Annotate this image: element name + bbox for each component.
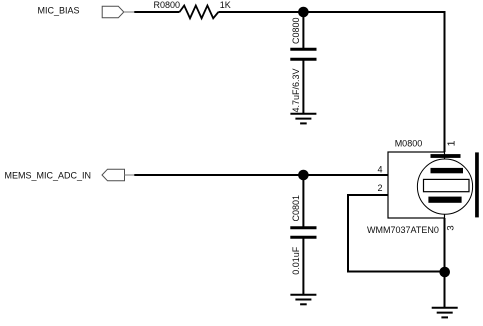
microphone symbol circle [417, 159, 472, 214]
ground below C0801 [290, 295, 316, 305]
microphone lower inner bar [428, 197, 461, 203]
pin 3 wire to ground [444, 218, 446, 308]
node junction wire2/C0801 [298, 170, 309, 181]
svg-text:0.01uF: 0.01uF [291, 246, 301, 275]
wire junction to C0800 [302, 12, 304, 48]
capacitor C0800 [290, 49, 316, 59]
microphone U M0800 body box [388, 152, 445, 218]
wire MEMS_MIC_ADC_IN to pin 4 [134, 174, 388, 176]
microphone top bar [431, 154, 461, 158]
svg-text:4.7uF/6.3V: 4.7uF/6.3V [291, 68, 301, 112]
svg-text:3: 3 [445, 225, 456, 230]
wire C0801 to ground [302, 237, 304, 295]
svg-text:1K: 1K [220, 0, 231, 10]
pin 2 wire route to ground net [348, 195, 445, 272]
wire C0800 to ground [302, 59, 304, 114]
ground below microphone [432, 308, 458, 318]
svg-text:MEMS_MIC_ADC_IN: MEMS_MIC_ADC_IN [5, 170, 92, 180]
svg-text:R0800: R0800 [153, 0, 180, 10]
connector MIC_BIAS [102, 6, 135, 18]
svg-text:C0800: C0800 [291, 17, 301, 44]
svg-text:MIC_BIAS: MIC_BIAS [38, 5, 80, 15]
node junction wire1/C0800 [298, 7, 309, 18]
svg-text:4: 4 [377, 164, 382, 174]
connector MEMS_MIC_ADC_IN [102, 169, 135, 181]
resistor R0800 [180, 6, 219, 19]
svg-text:WMM7037ATEN0: WMM7037ATEN0 [367, 225, 439, 235]
wire resistor to top-right corner [218, 11, 444, 13]
microphone membrane white slot [424, 179, 470, 191]
svg-text:2: 2 [377, 183, 382, 193]
svg-text:1: 1 [446, 140, 458, 146]
svg-text:M0800: M0800 [395, 138, 423, 148]
node junction pin2/pin3 [439, 267, 450, 278]
wire junction to C0801 [302, 175, 304, 227]
ground below C0800 [290, 114, 316, 124]
capacitor C0801 [290, 228, 316, 237]
microphone upper inner bar [431, 168, 464, 173]
wire top-right vertical to pin 1 [444, 11, 446, 152]
microphone port bar right [475, 152, 479, 217]
svg-text:C0801: C0801 [291, 195, 301, 222]
wire MIC_BIAS to resistor [134, 11, 179, 13]
